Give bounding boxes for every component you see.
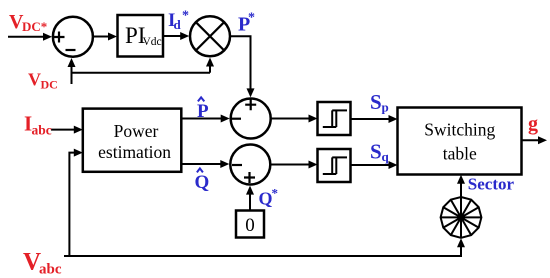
- label Sp: [370, 90, 389, 115]
- block 0 constant: [236, 211, 264, 238]
- block Power estimation: [83, 109, 182, 172]
- summing junction S1 (Vdc* - Vdc): [53, 17, 93, 57]
- svg-text:S: S: [370, 140, 382, 164]
- label Id*: [168, 9, 189, 33]
- svg-text:S: S: [370, 90, 382, 114]
- summing junction S3 (Qhat + Q*): [230, 145, 270, 185]
- wire switching table output g: [522, 139, 541, 141]
- sector detector wheel: [441, 197, 482, 238]
- svg-text:p: p: [382, 100, 389, 115]
- wire S1 to PI: [92, 36, 110, 38]
- svg-text:q: q: [382, 149, 390, 164]
- wire S2 to hysteresis H1: [270, 118, 311, 120]
- wire Phat to S2: [181, 118, 223, 120]
- wire H1 to switching table: [351, 118, 392, 120]
- svg-text:Power: Power: [114, 121, 159, 141]
- svg-text:P: P: [197, 101, 209, 122]
- block PI_Vdc: [118, 15, 164, 57]
- label Vabc: [23, 249, 62, 278]
- svg-text:0: 0: [245, 215, 255, 236]
- svg-text:*: *: [272, 186, 279, 201]
- svg-text:Q: Q: [195, 172, 210, 193]
- hysteresis comparator H2: [318, 149, 351, 182]
- svg-text:DC*: DC*: [22, 19, 47, 34]
- multiplier M1: [190, 16, 230, 56]
- label Q*: [259, 186, 279, 209]
- svg-text:V: V: [28, 70, 41, 90]
- wire Vabc bottom bus to wheel: [64, 245, 461, 256]
- wire Iabc input: [51, 129, 76, 131]
- svg-text:estimation: estimation: [98, 142, 171, 162]
- wire multiplier to P* corner down to summing junction S2: [230, 36, 251, 90]
- wire Vabc branch up into power estimation: [69, 153, 76, 256]
- label Phat: [197, 97, 209, 122]
- svg-text:g: g: [528, 113, 538, 135]
- wire Vdc feedback: [72, 63, 211, 84]
- svg-text:Switching: Switching: [424, 120, 495, 140]
- svg-text:abc: abc: [32, 123, 52, 138]
- label Sq: [370, 140, 390, 165]
- hysteresis comparator H1: [318, 102, 351, 135]
- label Vdc: [28, 70, 58, 92]
- wire Vdc* input: [8, 36, 45, 38]
- svg-text:DC: DC: [41, 78, 58, 92]
- svg-text:d: d: [174, 17, 182, 32]
- block Switching table: [398, 108, 522, 175]
- label P*: [238, 11, 255, 36]
- wire 0 to S3: [249, 191, 251, 211]
- summing junction S2 (P* - Phat): [231, 99, 271, 139]
- svg-text:Q: Q: [259, 189, 273, 209]
- svg-text:*: *: [182, 9, 189, 24]
- label Vdc*: [9, 11, 47, 34]
- label Iabc: [24, 112, 52, 138]
- label Qhat: [195, 168, 210, 193]
- svg-text:table: table: [443, 144, 477, 164]
- svg-text:Sector: Sector: [468, 175, 515, 194]
- svg-text:*: *: [248, 11, 255, 26]
- svg-text:Vdc: Vdc: [143, 36, 162, 48]
- svg-text:abc: abc: [39, 262, 62, 278]
- wire wheel to switching table (Sector): [460, 181, 462, 197]
- wire PI to multiplier: [163, 35, 183, 37]
- wire S3 to hysteresis H2: [270, 164, 311, 166]
- wire H2 to switching table: [351, 164, 392, 166]
- wire Qhat to S3: [181, 163, 222, 165]
